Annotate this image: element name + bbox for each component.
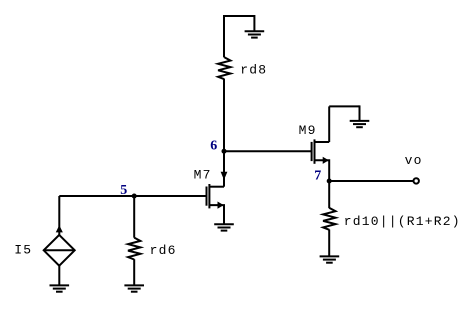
M9 gate bar [311,142,313,161]
transistor M7 [207,184,225,224]
svg-text:M9: M9 [299,123,317,138]
svg-text:6: 6 [210,138,217,153]
M9 channel bar [314,139,316,163]
wire vertical rd8 bottom to node 6 [223,79,225,151]
M7 drain leg [209,186,224,188]
I5 current arrow (pointing up) [56,226,62,232]
resistor rd10||(R1+R2) [323,208,335,230]
wire vertical stub to M9 ground [359,105,361,121]
transistor M9 [312,139,330,181]
wire gate rail from I5 through node 5 to M7 gate [59,195,206,197]
svg-text:5: 5 [120,183,127,198]
node 7 junction dot [327,179,332,184]
wire top horizontal to M9 ground stub [329,105,359,107]
wire I5 bottom to ground [58,265,60,285]
ground (below I5) [50,285,70,291]
wire node 7 to output terminal [329,180,413,182]
current direction arrow into M7 drain [221,172,227,179]
ground (M9 drain) [350,121,370,127]
wire node 5 down to rd6 [133,196,135,238]
resistor rd6 [128,238,140,260]
ground (below M7 source) [214,224,234,230]
M9 drain leg [315,141,330,143]
M7 channel bar [208,184,210,208]
wire from gate rail down to I5 [58,196,60,235]
node 5 junction dot [132,194,137,199]
resistor rd8 [218,57,230,79]
node 6 junction dot [222,149,227,154]
ground (top, above rd8) [245,31,265,37]
wire rd6 bottom to ground [133,259,135,285]
wire vertical stub to top ground [253,15,255,31]
output terminal circle [414,178,419,183]
wire node 6 to M9 gate [224,150,312,152]
svg-text:M7: M7 [194,168,212,183]
ground (below rd6) [124,285,144,291]
M9 source leg [315,160,330,181]
wire vertical from top rail to rd8 [223,15,225,57]
M7 source leg [209,205,224,224]
wire M9 drain up [328,106,330,142]
current source I5 diamond [44,235,75,266]
svg-text:rd8: rd8 [240,63,267,78]
wire node 6 down to M7 drain [223,151,225,187]
wire rd10 bottom to ground [328,230,330,257]
wire top horizontal from rd8 top to ground stub [224,15,254,17]
M7 source arrow [218,202,223,208]
ground (below rd10) [320,256,340,262]
M9 source arrow [323,157,328,163]
svg-text:vo: vo [405,153,423,168]
svg-text:rd10||(R1+R2): rd10||(R1+R2) [344,214,461,229]
svg-text:I5: I5 [14,243,32,258]
M7 gate bar [206,187,208,206]
svg-text:rd6: rd6 [150,243,177,258]
wire node 7 down to rd10 [328,181,330,208]
svg-text:7: 7 [314,169,321,184]
